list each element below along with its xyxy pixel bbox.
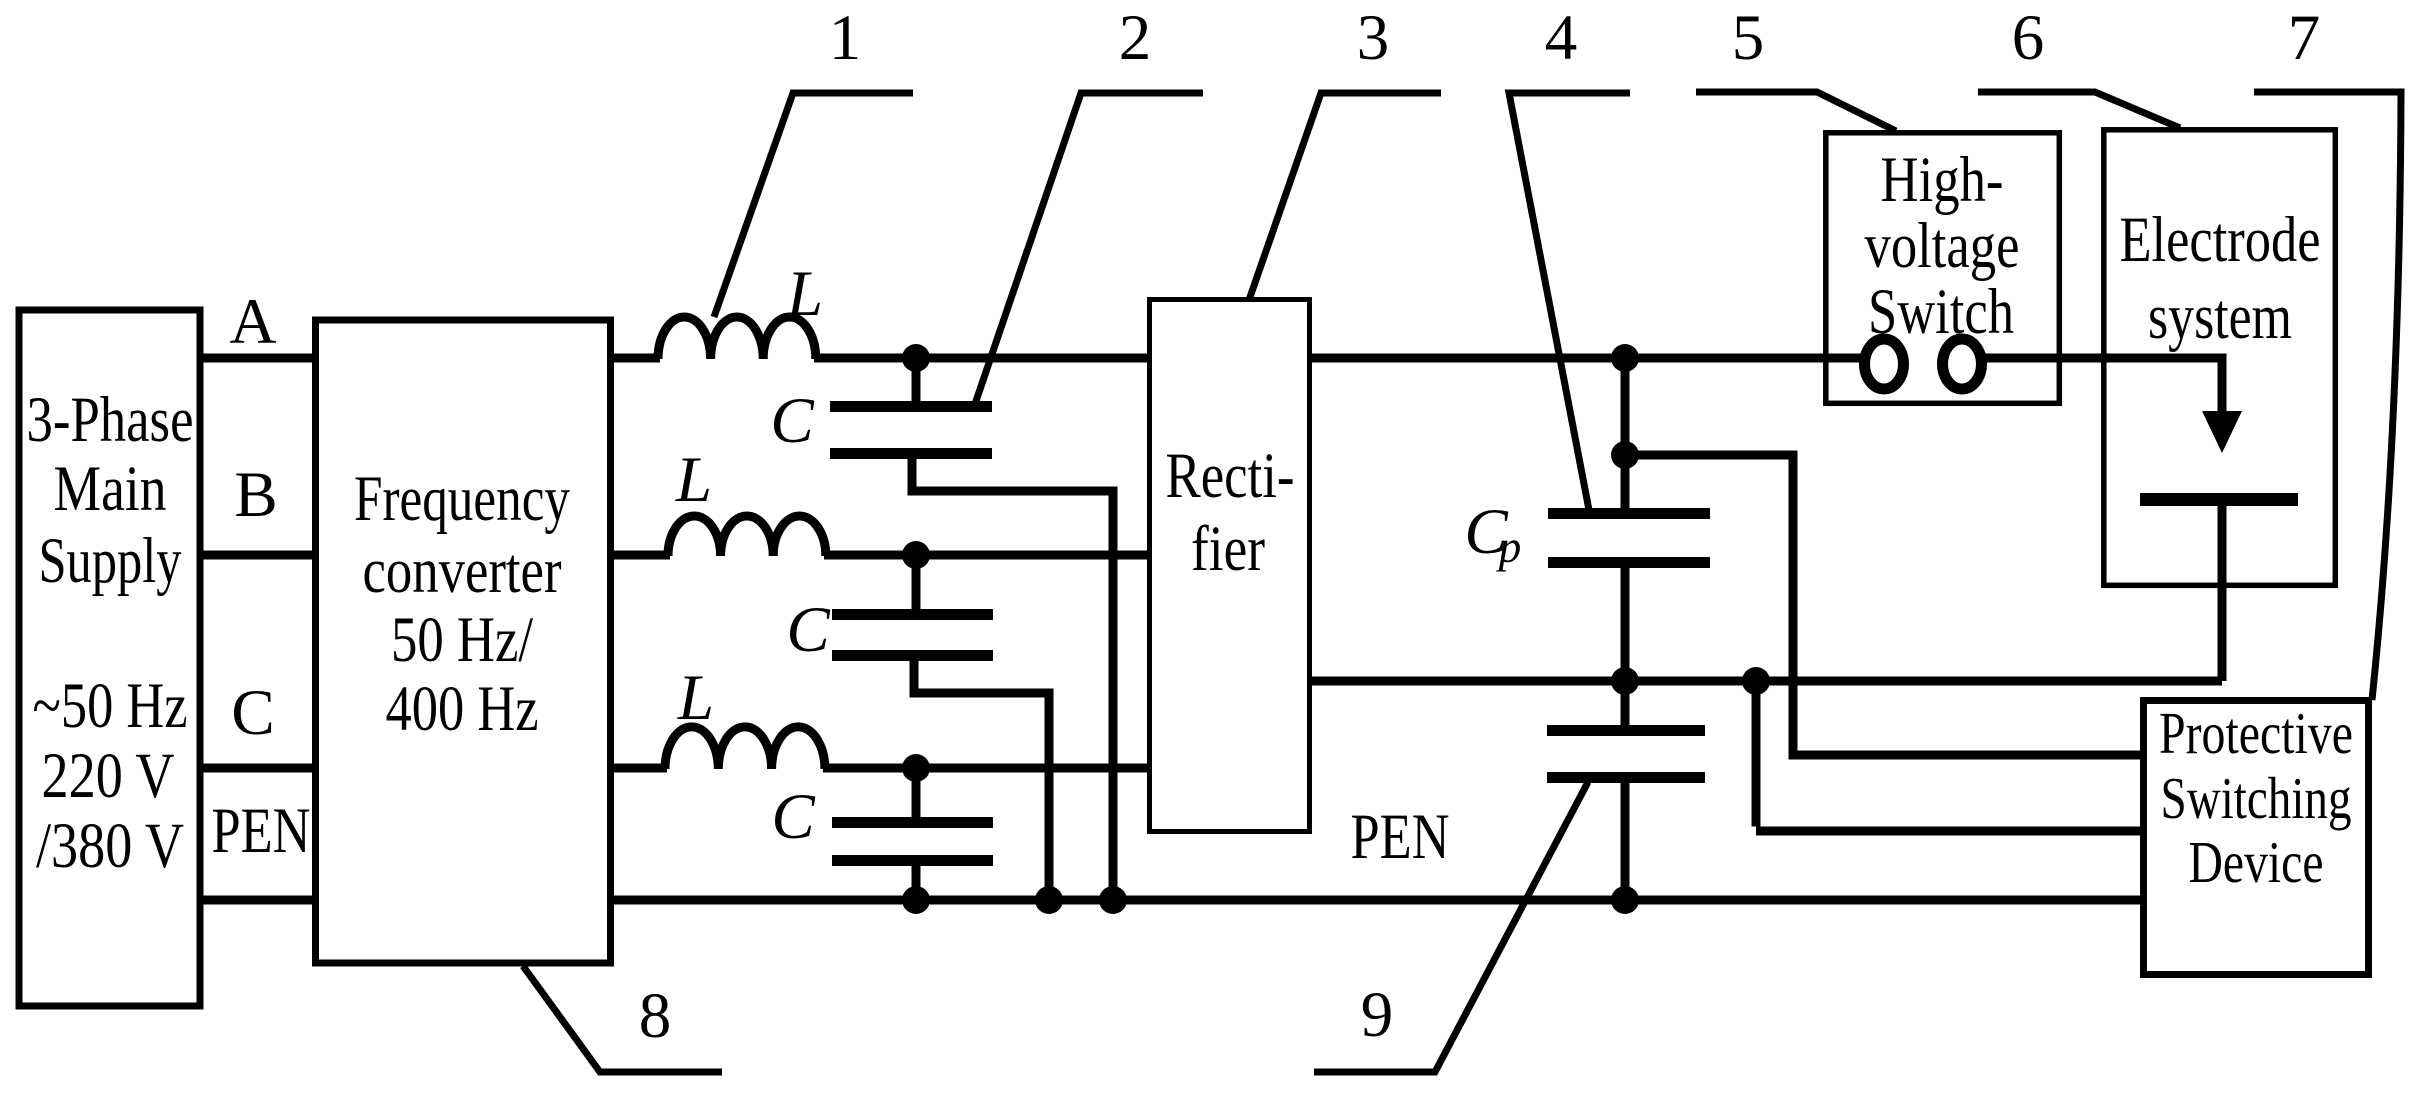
svg-text:fier: fier xyxy=(1191,513,1265,585)
callout 9 leader xyxy=(1314,782,1588,1072)
wire phase A: rectifier to high-voltage switch xyxy=(1310,354,1861,363)
callout 2 leader xyxy=(975,93,1203,404)
svg-text:50 Hz/: 50 Hz/ xyxy=(391,604,534,676)
svg-text:voltage: voltage xyxy=(1865,210,2020,282)
inductor L (phase A) xyxy=(658,317,816,359)
wire: mid junction down and right to protective device xyxy=(1756,681,2145,831)
svg-text:220 V: 220 V xyxy=(42,740,175,812)
callout 8 leader xyxy=(523,966,722,1072)
svg-text:400 Hz: 400 Hz xyxy=(386,673,539,745)
svg-text:1: 1 xyxy=(829,2,862,74)
switch contact circle left xyxy=(1865,339,1904,389)
junction dot mid wire / protective feed xyxy=(1742,667,1770,695)
block: Rectifier xyxy=(1150,300,1310,832)
block: High-voltage Switch xyxy=(1826,133,2060,404)
callout 5 leader xyxy=(1696,92,1896,131)
block: Protective Switching Device xyxy=(2144,700,2369,975)
wire phase A: supply to converter xyxy=(200,354,319,363)
capacitor C (phase C) lead xyxy=(912,768,921,817)
capacitor C (phase B) lead xyxy=(912,555,921,609)
svg-text:Switching: Switching xyxy=(2161,765,2352,831)
junction dot on PEN under C (phase C) xyxy=(902,886,930,914)
junction dot on PEN under C (phase B) xyxy=(1035,886,1063,914)
wire phase A: switch to electrode bend xyxy=(1985,354,2222,416)
svg-text:Device: Device xyxy=(2189,829,2324,895)
wire: node to protective device (upper feed) xyxy=(1625,451,2145,756)
svg-text:Electrode: Electrode xyxy=(2120,204,2321,276)
capacitor Cp (upper) lower lead to mid wire xyxy=(1621,568,1630,681)
capacitor C (phase C) plates xyxy=(832,823,993,861)
wire phase B: inductor to rectifier xyxy=(824,551,1152,560)
svg-text:L: L xyxy=(786,258,823,330)
wire phase A: inductor to rectifier xyxy=(814,354,1152,363)
svg-text:L: L xyxy=(677,662,714,734)
wire from capacitor C (phase B) to PEN xyxy=(910,661,1050,900)
wire phase C: inductor to rectifier xyxy=(823,764,1152,773)
svg-text:8: 8 xyxy=(639,980,672,1052)
svg-text:PEN: PEN xyxy=(1351,801,1450,873)
svg-text:C: C xyxy=(231,677,274,749)
svg-text:~50 Hz: ~50 Hz xyxy=(33,670,188,742)
callout 4 leader xyxy=(1509,93,1630,510)
capacitor Cp upper lead xyxy=(1621,455,1630,508)
electrode plate xyxy=(2140,493,2298,506)
svg-text:p: p xyxy=(1496,522,1522,572)
wire phase B: supply to converter xyxy=(200,551,319,560)
svg-text:Supply: Supply xyxy=(39,525,182,597)
svg-text:B: B xyxy=(234,459,277,531)
block: 3-Phase Main Supply xyxy=(19,310,200,1006)
svg-text:Protective: Protective xyxy=(2159,700,2353,766)
capacitor Cp (upper) plates xyxy=(1548,514,1710,563)
callout 1 leader xyxy=(714,93,913,317)
svg-text:converter: converter xyxy=(363,535,562,607)
junction dot phase B / capacitor C2 xyxy=(902,541,930,569)
svg-text:2: 2 xyxy=(1119,2,1152,74)
svg-text:5: 5 xyxy=(1732,2,1765,74)
wire PEN: supply to converter xyxy=(200,896,319,905)
svg-text:3-Phase: 3-Phase xyxy=(27,384,194,456)
svg-text:3: 3 xyxy=(1357,2,1390,74)
wire: rectifier mid output to electrode xyxy=(1310,677,2222,686)
svg-text:Frequency: Frequency xyxy=(354,463,570,535)
svg-text:9: 9 xyxy=(1361,979,1394,1051)
wire from capacitor C (phase A) to PEN xyxy=(908,459,1114,900)
junction dot phase C / capacitor C3 xyxy=(902,754,930,782)
svg-text:6: 6 xyxy=(2012,2,2045,74)
capacitor C (phase A) lead xyxy=(912,358,921,401)
svg-text:/380 V: /380 V xyxy=(36,810,184,882)
svg-text:C: C xyxy=(786,594,830,666)
capacitor Cp (lower) upper lead xyxy=(1621,681,1630,725)
svg-text:7: 7 xyxy=(2288,2,2321,74)
svg-text:PEN: PEN xyxy=(212,795,311,867)
svg-text:Recti-: Recti- xyxy=(1166,440,1295,512)
capacitor Cp (lower) lead to PEN xyxy=(1621,783,1630,900)
callout 6 leader xyxy=(1978,92,2180,128)
wire: electrode plate down to mid wire xyxy=(2218,506,2227,681)
capacitor C (phase A) plates xyxy=(830,407,992,454)
junction dot mid wire / Cp column xyxy=(1611,667,1639,695)
svg-text:L: L xyxy=(675,444,712,516)
wire phase B: converter to inductor xyxy=(610,551,670,560)
svg-text:system: system xyxy=(2148,281,2292,353)
svg-text:Main: Main xyxy=(54,453,167,525)
wire phase C: supply to converter xyxy=(200,764,319,773)
junction dot on PEN under Cp xyxy=(1611,886,1639,914)
callout 3 leader xyxy=(1249,93,1441,300)
svg-text:A: A xyxy=(230,286,277,358)
callout 7 leader xyxy=(2254,92,2401,700)
arrow head into electrode xyxy=(2202,411,2242,453)
svg-text:4: 4 xyxy=(1545,2,1578,74)
junction dot on PEN under C (phase A) xyxy=(1099,886,1127,914)
wire phase C: converter to inductor xyxy=(610,764,667,773)
svg-text:High-: High- xyxy=(1881,144,2004,216)
svg-text:C: C xyxy=(771,781,815,853)
capacitor Cp (lower) plates xyxy=(1547,731,1705,778)
wire PEN: converter to protective switching device xyxy=(610,896,2145,905)
inductor L (phase B) xyxy=(668,516,826,556)
wire: A junction down to node xyxy=(1621,358,1630,455)
junction dot phase A / capacitor C1 xyxy=(902,344,930,372)
junction dot Cp top node xyxy=(1611,441,1639,469)
wire phase A: converter to inductor xyxy=(610,354,660,363)
block: Electrode system xyxy=(2104,130,2336,586)
junction dot wire A / Cp branch xyxy=(1611,344,1639,372)
svg-text:C: C xyxy=(770,385,814,457)
block: Frequency converter 50 Hz/400 Hz xyxy=(316,320,611,963)
wire from capacitor C (phase C) to PEN xyxy=(912,866,921,900)
capacitor C (phase B) plates xyxy=(832,615,993,656)
switch contact circle right xyxy=(1943,339,1982,389)
inductor L (phase C) xyxy=(665,727,825,769)
